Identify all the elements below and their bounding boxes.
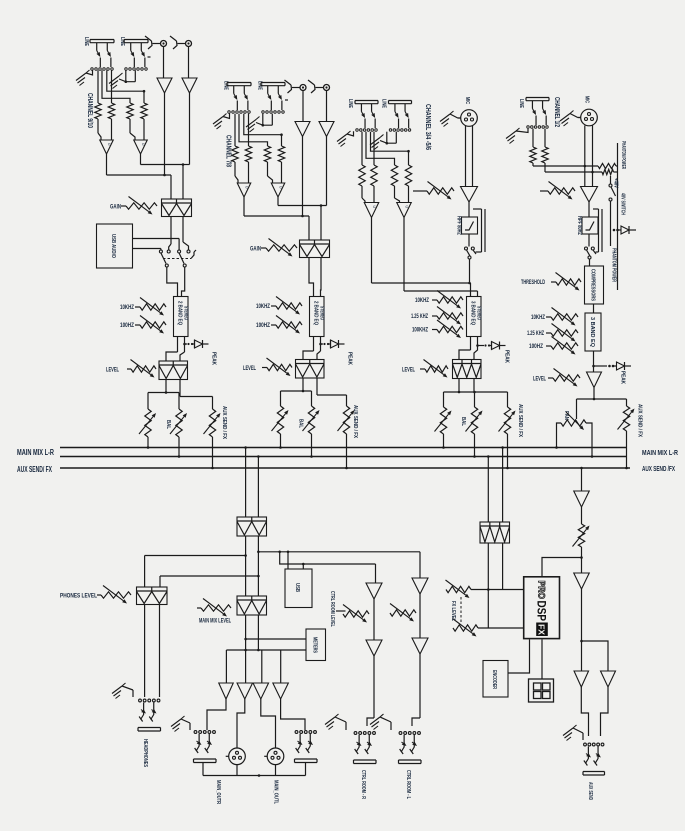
- svg-text:MAIN_OUTR: MAIN_OUTR: [215, 780, 221, 804]
- svg-text:MIC: MIC: [584, 96, 590, 103]
- svg-text:STEREO: STEREO: [319, 306, 325, 320]
- svg-text:METERS: METERS: [312, 637, 318, 653]
- svg-text:CTRL ROOM - L: CTRL ROOM - L: [405, 770, 411, 799]
- svg-text:48V SWITCH: 48V SWITCH: [620, 193, 626, 215]
- svg-text:PEAK: PEAK: [504, 350, 510, 363]
- svg-text:HEADPHONES: HEADPHONES: [142, 739, 148, 767]
- svg-text:LINE: LINE: [381, 99, 387, 109]
- svg-text:PHANTOM POWER: PHANTOM POWER: [620, 141, 626, 169]
- svg-text:FX LEVEL: FX LEVEL: [450, 601, 456, 621]
- svg-text:FX: FX: [537, 624, 547, 635]
- svg-text:HPF 80HZ: HPF 80HZ: [576, 216, 582, 235]
- svg-text:100HZ: 100HZ: [120, 323, 134, 329]
- svg-text:LEVEL: LEVEL: [533, 377, 546, 383]
- svg-text:PEAK: PEAK: [347, 352, 353, 365]
- svg-text:100HZ: 100HZ: [256, 323, 270, 329]
- svg-text:LEVEL: LEVEL: [106, 368, 119, 374]
- svg-text:PEAK: PEAK: [620, 371, 626, 384]
- svg-text:BAL: BAL: [460, 417, 466, 427]
- svg-text:ENCODER: ENCODER: [491, 670, 497, 689]
- svg-text:LINE: LINE: [347, 99, 353, 109]
- svg-text:CTRL ROOM - R: CTRL ROOM - R: [360, 770, 366, 799]
- svg-text:MAIN MIX LEVEL: MAIN MIX LEVEL: [199, 619, 231, 625]
- svg-text:STEREO: STEREO: [183, 306, 189, 320]
- svg-text:LINE: LINE: [518, 99, 524, 109]
- svg-text:1.25 KHZ: 1.25 KHZ: [411, 314, 428, 320]
- svg-text:100HZ: 100HZ: [529, 344, 543, 350]
- svg-text:PRO: PRO: [536, 581, 547, 600]
- svg-text:PHONES LEVEL: PHONES LEVEL: [60, 594, 97, 600]
- svg-text:CHANNEL 9/10: CHANNEL 9/10: [86, 93, 93, 128]
- svg-text:CTRL ROOM LEVEL: CTRL ROOM LEVEL: [329, 591, 335, 627]
- svg-text:DSP: DSP: [535, 601, 547, 622]
- svg-text:MAIN_OUTL: MAIN_OUTL: [273, 780, 279, 804]
- svg-text:2 BAND EQ: 2 BAND EQ: [313, 301, 319, 325]
- svg-text:LEVEL: LEVEL: [243, 366, 256, 372]
- svg-text:AUX SEND / FX: AUX SEND / FX: [221, 406, 227, 439]
- svg-text:10KHZ: 10KHZ: [415, 298, 429, 304]
- svg-text:USB: USB: [294, 583, 300, 592]
- svg-text:COMPRESSORS: COMPRESSORS: [590, 269, 596, 301]
- svg-text:AUX SEND/ FX: AUX SEND/ FX: [17, 465, 52, 474]
- svg-text:100KHZ: 100KHZ: [412, 328, 428, 334]
- svg-text:MAIN MIX L-R: MAIN MIX L-R: [17, 448, 54, 457]
- svg-text:PHANTOM POWER: PHANTOM POWER: [611, 248, 617, 282]
- svg-text:GAIN: GAIN: [110, 205, 121, 211]
- svg-text:10KHZ: 10KHZ: [256, 304, 270, 310]
- svg-text:AUX SEND / FX: AUX SEND / FX: [637, 404, 643, 437]
- svg-text:CHANNEL 3/4 -5/6: CHANNEL 3/4 -5/6: [424, 104, 431, 150]
- svg-text:LINE: LINE: [83, 37, 89, 47]
- svg-text:LEVEL: LEVEL: [402, 368, 415, 374]
- svg-text:AUX SEND / FX: AUX SEND / FX: [352, 405, 358, 438]
- svg-text:BAL: BAL: [298, 419, 304, 429]
- svg-text:3 BAND EQ: 3 BAND EQ: [470, 301, 476, 325]
- svg-text:+48V: +48V: [613, 178, 619, 189]
- svg-text:CHANNEL 7/8: CHANNEL 7/8: [225, 135, 232, 167]
- svg-text:AUX SEND /FX: AUX SEND /FX: [642, 464, 675, 473]
- svg-text:10KHZ: 10KHZ: [120, 305, 134, 311]
- svg-text:USB AUDIO: USB AUDIO: [110, 234, 116, 259]
- svg-text:BAL: BAL: [165, 420, 171, 430]
- svg-text:MIC: MIC: [464, 97, 470, 104]
- svg-text:1.25 KHZ: 1.25 KHZ: [527, 331, 544, 337]
- svg-text:GAIN: GAIN: [250, 247, 261, 253]
- svg-text:STEREO: STEREO: [476, 306, 482, 320]
- svg-text:MAIN MIX L-R: MAIN MIX L-R: [642, 448, 678, 457]
- svg-text:PEAK: PEAK: [211, 352, 217, 365]
- svg-text:AUX SEND / FX: AUX SEND / FX: [517, 404, 523, 437]
- svg-text:HPF 80HZ: HPF 80HZ: [456, 216, 462, 235]
- svg-text:THRESHOLD: THRESHOLD: [521, 280, 545, 286]
- svg-text:10KHZ: 10KHZ: [531, 315, 545, 321]
- svg-text:AUX SEND: AUX SEND: [587, 782, 593, 800]
- svg-text:2 BAND EQ: 2 BAND EQ: [177, 301, 183, 325]
- svg-text:3 BAND EQ: 3 BAND EQ: [589, 317, 595, 348]
- svg-text:CHANNEL 1/2: CHANNEL 1/2: [553, 97, 560, 127]
